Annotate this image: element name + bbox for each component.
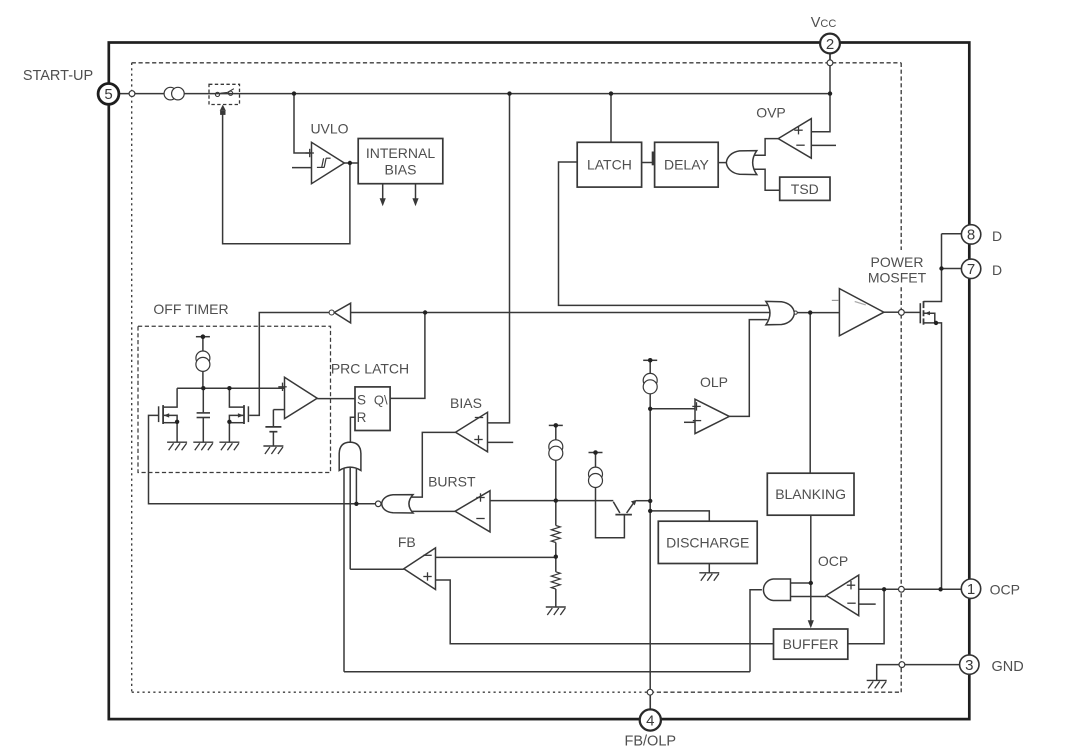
svg-text:GND: GND: [992, 659, 1024, 675]
svg-text:3: 3: [965, 657, 973, 674]
svg-text:PRC LATCH: PRC LATCH: [331, 360, 409, 376]
svg-text:OLP: OLP: [700, 374, 728, 390]
svg-text:R: R: [357, 410, 367, 425]
svg-text:START-UP: START-UP: [23, 68, 93, 84]
svg-text:BUFFER: BUFFER: [783, 636, 839, 652]
svg-text:UVLO: UVLO: [310, 121, 348, 137]
svg-text:S: S: [357, 393, 366, 408]
svg-text:BIAS: BIAS: [385, 162, 417, 178]
svg-text:FB/OLP: FB/OLP: [625, 733, 677, 749]
svg-text:OCP: OCP: [818, 553, 848, 569]
svg-text:TSD: TSD: [791, 181, 819, 197]
svg-text:INTERNAL: INTERNAL: [366, 145, 435, 161]
svg-text:BLANKING: BLANKING: [775, 486, 846, 502]
svg-text:POWER: POWER: [871, 254, 924, 270]
svg-text:5: 5: [104, 86, 112, 103]
svg-text:OFF TIMER: OFF TIMER: [153, 301, 228, 317]
svg-text:7: 7: [967, 261, 975, 278]
svg-text:LATCH: LATCH: [587, 157, 632, 173]
svg-text:BURST: BURST: [428, 473, 476, 489]
svg-text:BIAS: BIAS: [450, 395, 482, 411]
svg-text:2: 2: [826, 36, 834, 53]
svg-text:4: 4: [646, 712, 654, 729]
svg-text:DELAY: DELAY: [664, 157, 710, 173]
svg-text:VCC: VCC: [811, 15, 837, 31]
svg-text:8: 8: [967, 227, 975, 244]
svg-text:OCP: OCP: [990, 581, 1020, 597]
svg-text:MOSFET: MOSFET: [868, 269, 927, 285]
svg-text:Q\: Q\: [374, 393, 388, 408]
svg-text:D: D: [992, 228, 1002, 244]
svg-text:FB: FB: [398, 534, 416, 550]
svg-text:DISCHARGE: DISCHARGE: [666, 534, 749, 550]
svg-text:D: D: [992, 262, 1002, 278]
svg-text:1: 1: [967, 581, 975, 598]
svg-text:OVP: OVP: [756, 104, 786, 120]
